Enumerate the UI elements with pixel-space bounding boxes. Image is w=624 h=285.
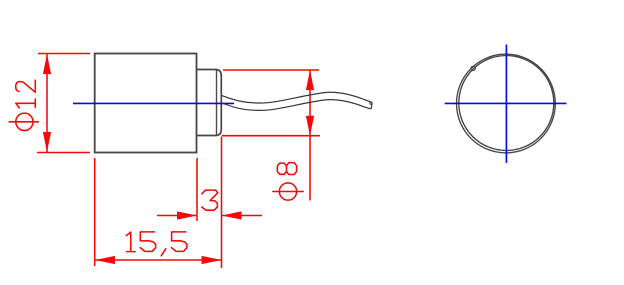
wire (flying lead, bottom line) <box>222 100 370 111</box>
dimension phi12 extension line bottom <box>37 152 90 154</box>
nozzle tangent edge line <box>216 70 218 136</box>
digit 1 of phi12 (rotated -90) <box>16 99 36 108</box>
dimension 3 label text <box>202 190 218 210</box>
wire (flying lead, top line) <box>222 92 372 103</box>
dimension 15,5 left extension line <box>94 158 96 266</box>
dimension 3 arrow pointing left <box>222 211 242 219</box>
dimension 3 and 15,5 shared right extension line <box>221 137 223 269</box>
digit 8 of phi8 (rotated -90) <box>277 163 296 175</box>
nozzle outline (front boss) <box>197 70 222 136</box>
dimension phi12 dimension line <box>46 54 48 152</box>
dimension 3 arrow pointing right <box>177 211 197 219</box>
dimension 15,5 arrow pointing right <box>202 256 222 264</box>
end view horizontal centerline (blue) <box>445 102 567 104</box>
dimension phi8 arrow up <box>306 70 314 90</box>
phi symbol of phi8 <box>279 183 296 200</box>
second digit 5 of 15,5 <box>172 232 187 252</box>
dimension phi12 extension line top <box>38 53 90 55</box>
dimension phi12 arrow up <box>43 54 51 74</box>
digit 5 of 15,5 <box>140 232 155 252</box>
dimension phi8 extension line bottom <box>222 135 320 137</box>
comma of 15,5 <box>161 249 166 256</box>
wire end tiny loop <box>370 102 372 104</box>
dimension phi12 arrow down <box>43 132 51 152</box>
phi symbol of phi12 <box>16 113 33 130</box>
dimension phi12 label text (rotated) <box>9 80 38 130</box>
dimension 15,5 label text <box>126 232 187 256</box>
end view outer circle <box>457 54 556 153</box>
dimension 15,5 dimension line <box>95 259 222 261</box>
dimension 3 dimension line right tail <box>222 215 263 217</box>
end view small detail circle <box>471 66 475 70</box>
dimension 15,5 arrow pointing left <box>95 256 115 264</box>
end view inner circle <box>459 56 554 151</box>
end view vertical centerline (blue) <box>505 45 507 163</box>
dimension 3 dimension line left tail <box>157 215 197 217</box>
centerline left view (blue) <box>73 102 234 104</box>
digit 2 of phi12 (rotated -90) <box>16 80 36 92</box>
dimension phi8 arrow down <box>306 116 314 136</box>
dimension 3 left extension line <box>196 158 198 221</box>
body outline (main cylinder side view) <box>95 54 197 153</box>
digit 1 of 15,5 <box>126 232 135 252</box>
dimension phi8 label text (rotated) <box>273 163 303 200</box>
dimension phi8 dimension line <box>309 70 311 201</box>
dimension phi8 extension line top <box>223 69 319 71</box>
wire end cap <box>370 102 372 109</box>
